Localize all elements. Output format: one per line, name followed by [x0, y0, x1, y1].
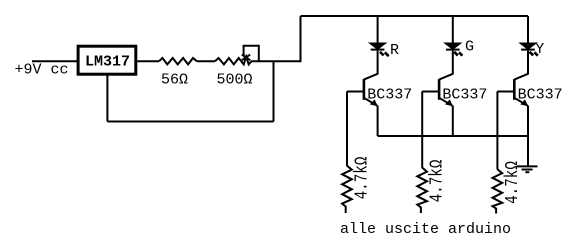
svg-text:BC337: BC337 — [442, 87, 487, 104]
transistor Q3 emitter arrowhead — [520, 99, 528, 106]
LED D2 triangle — [446, 44, 460, 49]
svg-text:alle uscite arduino: alle uscite arduino — [340, 221, 511, 238]
svg-text:R: R — [390, 42, 399, 59]
svg-text:4.7kΩ: 4.7kΩ — [501, 161, 522, 204]
wire emitter bus — [378, 135, 528, 137]
transistor Q3 base lead — [497, 91, 514, 93]
LED D1 triangle — [371, 44, 385, 49]
wire Q3 emitter down to ground — [527, 106, 529, 167]
LED D1 cathode bar — [371, 49, 385, 51]
LED D2 emission arrows — [454, 52, 462, 56]
LED D3 emission arrows — [530, 52, 538, 56]
resistor R1 56ohm — [159, 58, 197, 64]
wire rail to LED D1 — [377, 16, 379, 44]
wire rail to LED D2 — [452, 16, 454, 44]
svg-text:500Ω: 500Ω — [217, 72, 253, 89]
wire Q2 base riser down — [421, 91, 423, 168]
transistor Q1 collector diagonal — [364, 74, 378, 80]
wire feedback bottom — [107, 121, 273, 123]
wire R1 to R2 — [197, 60, 215, 62]
LED D3 triangle — [521, 44, 535, 49]
svg-text:Y: Y — [535, 41, 544, 58]
R2 wiper X mark — [242, 55, 250, 61]
wire LM317 adj pin down — [106, 75, 108, 122]
wire Q1 base riser down — [346, 91, 348, 166]
svg-text:56Ω: 56Ω — [161, 72, 188, 89]
ground bar 1 — [517, 165, 538, 167]
transistor Q3 collector diagonal — [514, 74, 528, 80]
wire input +9V to LM317 — [32, 60, 78, 62]
wire rail to LED D3 — [527, 16, 529, 44]
transistor Q2 emitter arrowhead — [445, 99, 453, 106]
wire LED D2 to Q2 collector — [452, 51, 454, 75]
transistor Q2 collector diagonal — [439, 74, 453, 80]
R2 wiper X mark second arm — [242, 55, 250, 61]
svg-text:4.7kΩ: 4.7kΩ — [351, 157, 372, 200]
wire top supply rail — [301, 15, 529, 17]
transistor Q2 base bar — [438, 79, 441, 100]
resistor R5 4.7k vertical — [493, 169, 503, 213]
wire R2 to top rail corner — [259, 16, 301, 61]
transistor Q1 base bar — [363, 79, 366, 100]
transistor Q2 emitter diagonal with arrow — [439, 98, 452, 106]
transistor Q2 base lead — [422, 91, 439, 93]
resistor R3 4.7k vertical — [342, 166, 352, 213]
transistor Q1 emitter arrowhead — [370, 99, 378, 106]
LED D3 cathode bar — [521, 49, 535, 51]
wire Q1 emitter down to bus — [377, 106, 379, 137]
regulator U1 LM317 box — [78, 46, 136, 74]
ground bar 3 — [525, 171, 529, 173]
resistor R4 4.7k vertical — [417, 168, 427, 213]
wire Q2 emitter down to bus — [452, 106, 454, 137]
wire LM317 output to R1 — [137, 60, 159, 62]
transistor Q1 emitter diagonal with arrow — [364, 98, 377, 106]
svg-text:LM317: LM317 — [85, 54, 130, 71]
wire Q3 base riser down — [496, 91, 498, 169]
transistor Q3 base bar — [513, 79, 516, 100]
svg-text:BC337: BC337 — [518, 87, 563, 104]
svg-text:BC337: BC337 — [367, 87, 412, 104]
wire LED D1 to Q1 collector — [377, 51, 379, 75]
transistor Q3 emitter diagonal with arrow — [514, 98, 527, 106]
potentiometer R2 500ohm zigzag — [215, 57, 259, 65]
svg-text:4.7kΩ: 4.7kΩ — [426, 160, 447, 203]
LED D2 cathode bar — [446, 49, 460, 51]
svg-text:+9V cc: +9V cc — [15, 62, 69, 79]
wire feedback right riser — [273, 61, 275, 121]
svg-text:G: G — [465, 39, 474, 56]
LED D1 emission arrows — [380, 52, 389, 56]
wire LED D3 to Q3 collector — [527, 51, 529, 75]
ground bar 2 — [522, 169, 533, 171]
R2 wiper loop square — [244, 46, 259, 62]
transistor Q1 base lead — [347, 91, 364, 93]
